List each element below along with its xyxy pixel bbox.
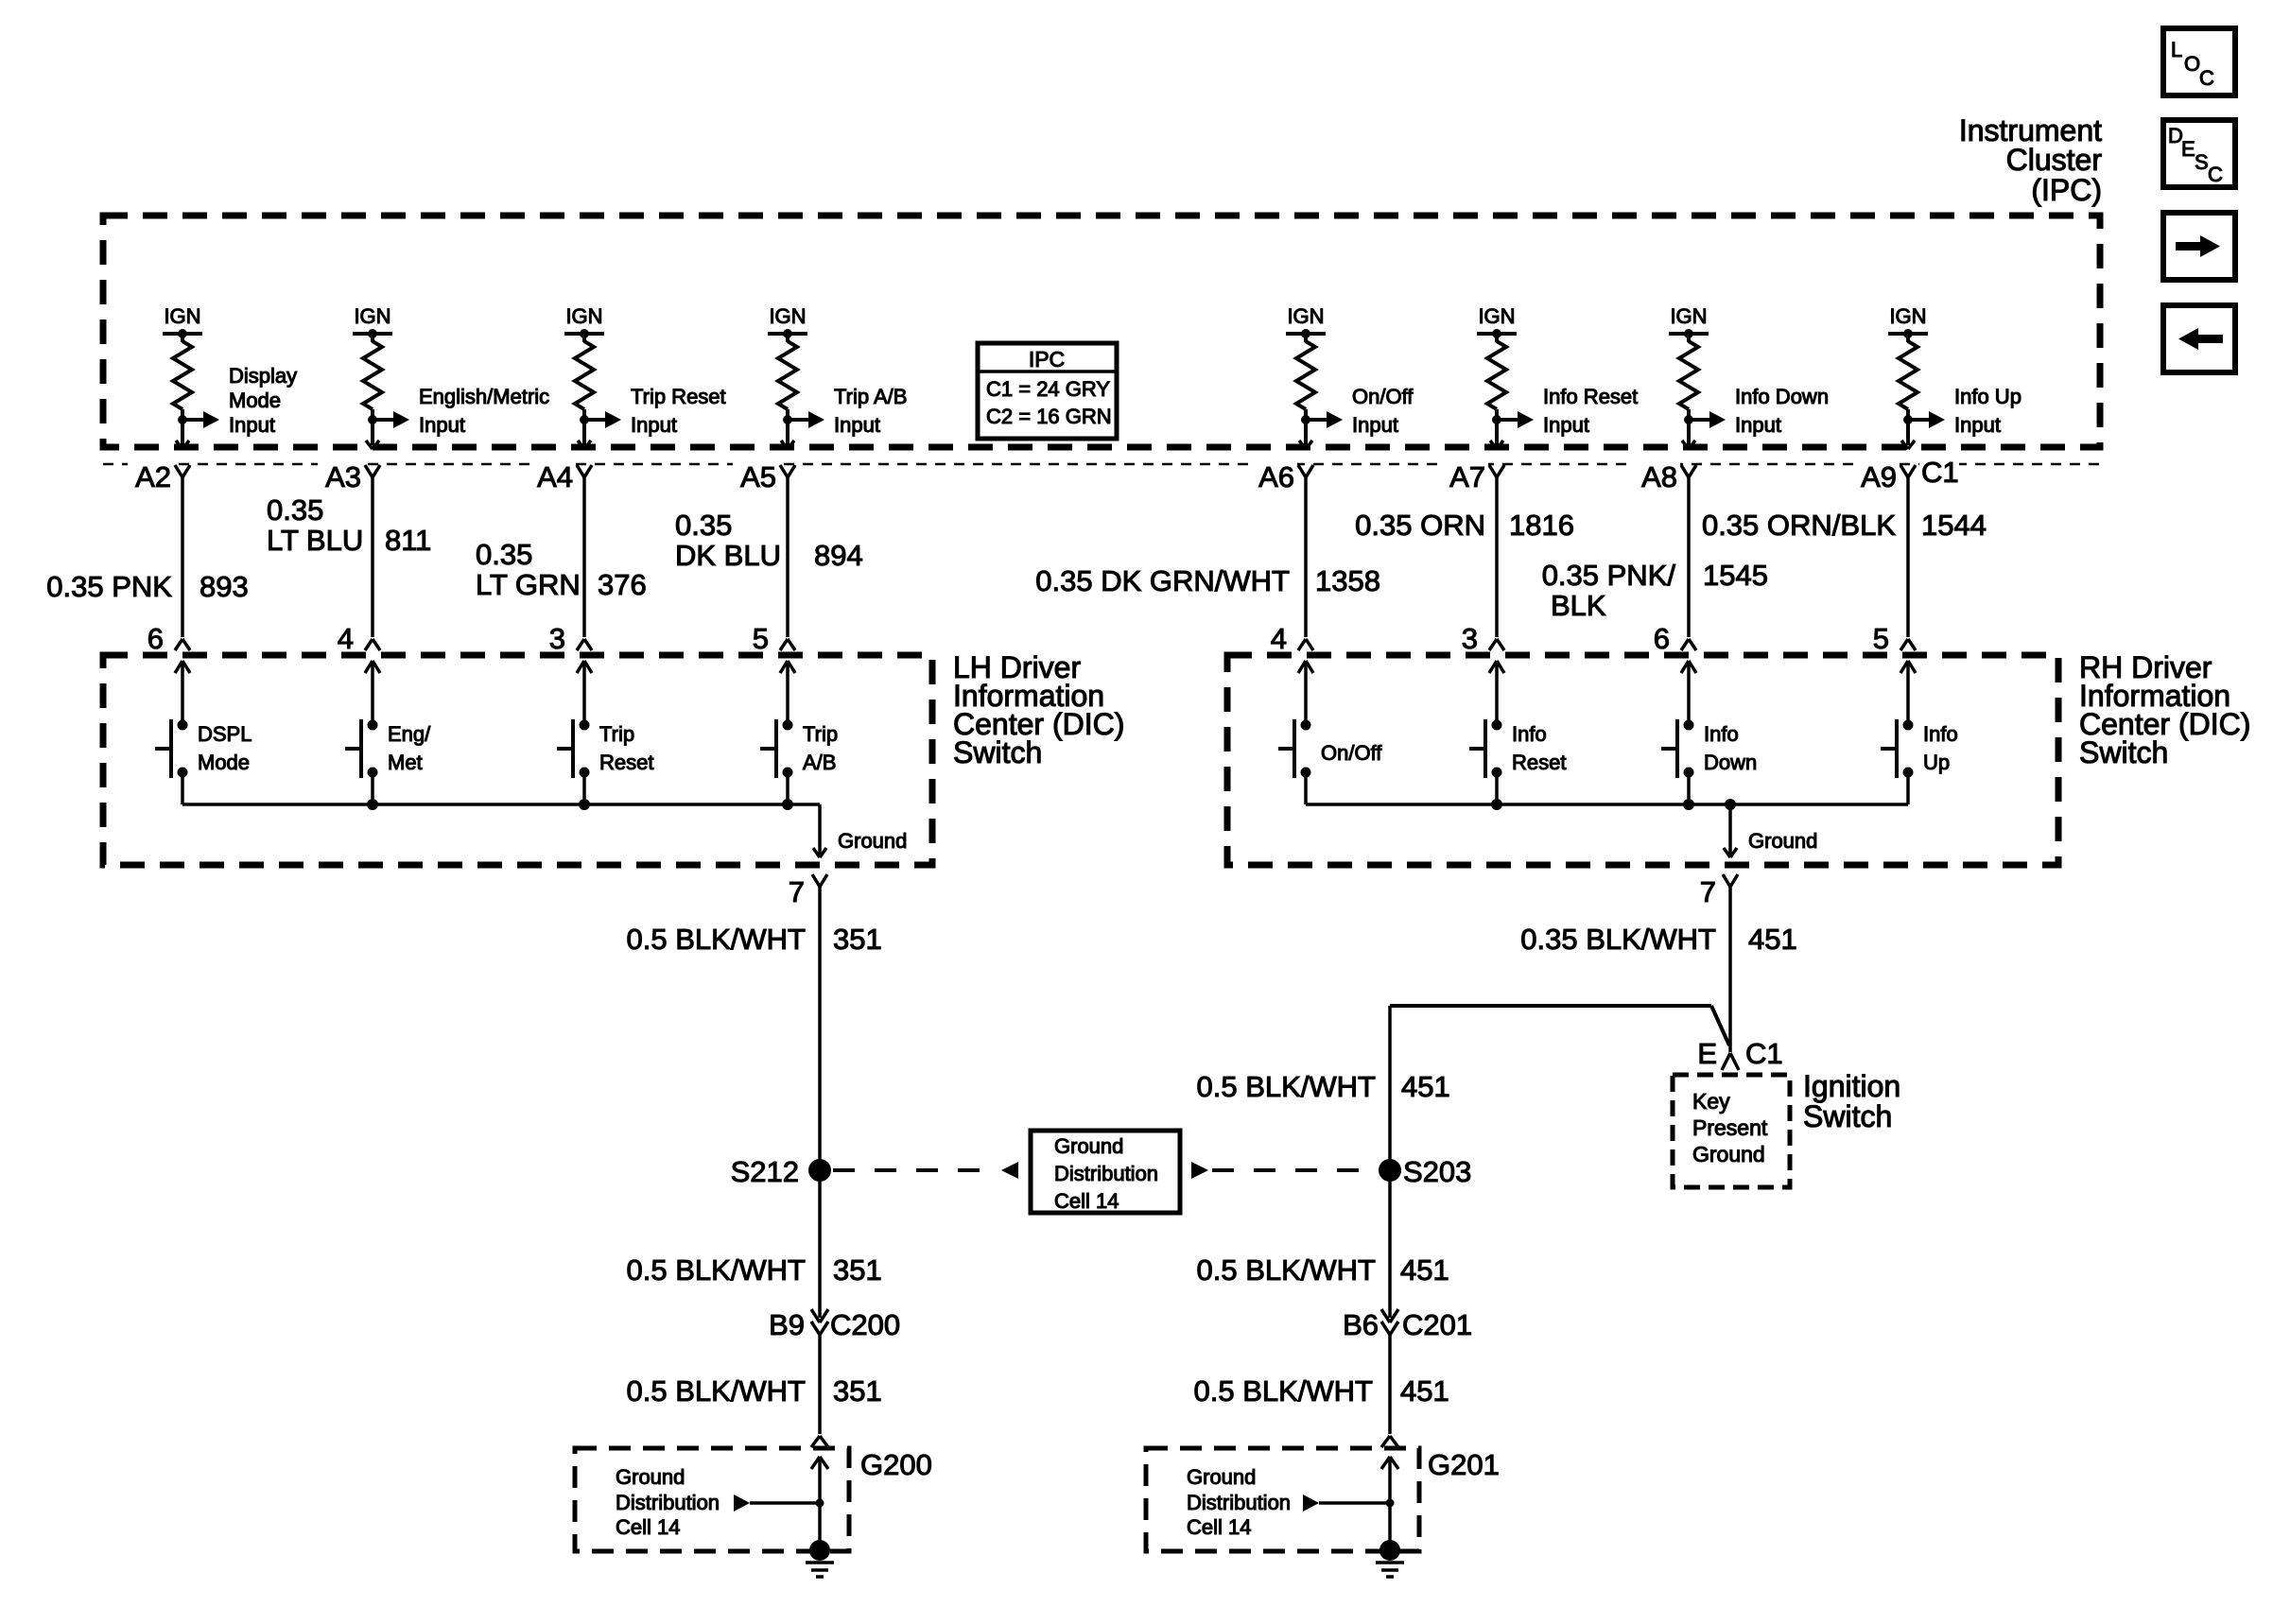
svg-text:451: 451	[1400, 1374, 1449, 1408]
wire 451 segment (S203 to C201)	[1388, 1170, 1392, 1318]
connector at DIC pin 3	[549, 622, 592, 655]
svg-text:6: 6	[147, 622, 164, 655]
svg-text:Info Down: Info Down	[1735, 385, 1829, 408]
arrowhead into IPC boundary	[1490, 441, 1503, 449]
svg-text:C201: C201	[1402, 1308, 1472, 1341]
svg-text:0.35 PNK: 0.35 PNK	[46, 570, 172, 603]
svg-text:0.35: 0.35	[476, 538, 532, 571]
svg-text:0.5 BLK/WHT: 0.5 BLK/WHT	[1194, 1374, 1374, 1408]
svg-text:On/Off: On/Off	[1352, 385, 1414, 408]
IGN supply node (column 6)	[1477, 304, 1517, 342]
wire label 0.5 BLK/WHT 451 (middle)	[1197, 1253, 1449, 1287]
svg-text:Present: Present	[1692, 1115, 1768, 1140]
svg-text:Info: Info	[1704, 722, 1739, 746]
arrow into DIC box at pin (column 3)	[577, 661, 592, 725]
label Info Down	[1704, 722, 1757, 774]
wire label 0.5 BLK/WHT 451 (lower)	[1194, 1374, 1449, 1408]
splice node S203	[1379, 1155, 1471, 1188]
signal tap arrow (Info Reset input)	[1497, 411, 1534, 428]
wire A2 to DIC switch	[181, 477, 184, 637]
svg-text:DK BLU: DK BLU	[675, 539, 781, 572]
IGN supply node (column 7)	[1669, 304, 1709, 342]
RH Driver Information Center (DIC) Switch dashed box	[1227, 655, 2058, 865]
connector at DIC pin 3	[1462, 622, 1504, 655]
svg-text:7: 7	[1700, 875, 1716, 908]
arrowhead into IPC boundary	[1299, 441, 1312, 449]
connector at DIC pin 5	[1873, 622, 1916, 655]
connector at ground G201	[1381, 1436, 1398, 1447]
wire resistor R7 to pin	[1684, 409, 1693, 445]
svg-text:Trip: Trip	[803, 722, 838, 746]
label Instrument Cluster (IPC)	[1959, 113, 2103, 207]
svg-text:3: 3	[549, 622, 565, 655]
svg-text:Reset: Reset	[599, 751, 653, 774]
pin A9 connector (IPC C1)	[1853, 456, 1916, 493]
svg-text:Cell 14: Cell 14	[1187, 1515, 1251, 1539]
wire label 0.5 BLK/WHT 351 (middle)	[627, 1253, 882, 1287]
svg-text:5: 5	[753, 622, 769, 655]
label On/Off	[1321, 741, 1382, 765]
forward arrow icon box	[2163, 213, 2235, 280]
wire switch SW6 to ground bus	[1495, 772, 1499, 804]
svg-text:4: 4	[338, 622, 354, 655]
earth ground symbol G200	[806, 1563, 834, 1577]
wire label 0.35 DK GRN/WHT 1358	[1035, 564, 1380, 597]
pushbutton switch SW3 (Trip Reset)	[557, 719, 590, 778]
LH ground branch arrow	[813, 804, 826, 857]
svg-text:Distribution: Distribution	[616, 1491, 720, 1514]
wire A9 to DIC switch	[1906, 477, 1910, 637]
reference arrow (G200 cell)	[734, 1494, 824, 1512]
connector at DIC pin 6	[1654, 622, 1696, 655]
svg-text:0.35 ORN/BLK: 0.35 ORN/BLK	[1702, 509, 1896, 542]
wire label 0.35 DK BLU 894	[675, 509, 863, 572]
label Ground Distribution Cell 14 (G201)	[1187, 1465, 1291, 1539]
LH DIC pin 7 connector	[789, 874, 827, 908]
svg-text:Mode: Mode	[229, 389, 281, 412]
IGN supply node (column 3)	[564, 304, 604, 342]
svg-text:S212: S212	[731, 1155, 799, 1188]
svg-text:BLK: BLK	[1551, 589, 1606, 622]
svg-text:Key: Key	[1692, 1089, 1730, 1114]
svg-text:L: L	[2171, 38, 2182, 61]
svg-text:4: 4	[1271, 622, 1287, 655]
label LH Driver Information Center (DIC) Switch	[953, 650, 1124, 769]
arrow into DIC box at pin (column 6)	[1489, 661, 1504, 725]
LOC icon box	[2163, 28, 2235, 95]
svg-text:Input: Input	[419, 413, 465, 437]
svg-text:Info: Info	[1923, 722, 1958, 746]
svg-text:0.35 BLK/WHT: 0.35 BLK/WHT	[1520, 923, 1716, 956]
svg-text:Ground: Ground	[1187, 1465, 1256, 1489]
svg-text:893: 893	[200, 570, 249, 603]
wire 451 segment (corner to S203)	[1388, 1006, 1392, 1170]
connector at DIC pin 4	[338, 622, 380, 655]
resistor R3 (pull-up to IGN)	[575, 341, 594, 409]
signal tap arrow (On/Off input)	[1306, 411, 1343, 428]
dashed reference link cell to S203	[1191, 1162, 1377, 1179]
svg-text:7: 7	[789, 875, 805, 908]
arrowhead into IPC boundary	[1682, 441, 1695, 449]
svg-text:Input: Input	[834, 413, 880, 437]
back arrow icon box	[2163, 305, 2235, 372]
svg-text:(IPC): (IPC)	[2031, 173, 2102, 207]
wire switch SW2 to ground bus	[371, 772, 374, 804]
wire 451 segment (C201 to G201)	[1388, 1335, 1392, 1434]
wire switch SW7 to ground bus	[1687, 772, 1691, 804]
svg-text:351: 351	[833, 1253, 882, 1287]
arrow into G200 stud	[811, 1457, 828, 1503]
arrowhead into IPC boundary	[781, 441, 794, 449]
wire resistor R5 to pin	[1301, 409, 1310, 445]
svg-text:Ground: Ground	[1054, 1134, 1123, 1158]
label C1 (IPC connector)	[1919, 456, 1959, 489]
wire A5 to DIC switch	[786, 477, 789, 637]
svg-text:Reset: Reset	[1512, 751, 1566, 774]
label Info Reset	[1512, 722, 1566, 774]
wire resistor R1 to pin	[178, 409, 187, 445]
wire resistor R3 to pin	[580, 409, 589, 445]
svg-text:Ground: Ground	[616, 1465, 685, 1489]
pushbutton switch SW2 (Eng/ Met)	[345, 719, 378, 778]
pin A8 connector (IPC C1)	[1634, 456, 1696, 493]
svg-text:A5: A5	[740, 460, 776, 493]
svg-text:0.35 PNK/: 0.35 PNK/	[1542, 559, 1676, 592]
signal tap arrow (Display input)	[182, 411, 219, 428]
svg-text:G200: G200	[860, 1448, 932, 1481]
label On/Off Input	[1352, 385, 1414, 437]
svg-text:IGN: IGN	[1889, 304, 1926, 328]
connector at DIC pin 5	[753, 622, 795, 655]
arrow into G201 stud	[1381, 1457, 1398, 1503]
resistor R2 (pull-up to IGN)	[363, 341, 382, 409]
IGN supply node (column 8)	[1888, 304, 1928, 342]
RH DIC pin 7 connector	[1700, 874, 1738, 908]
wire label 0.35 BLK/WHT 451	[1520, 923, 1796, 956]
svg-text:A4: A4	[537, 460, 573, 493]
svg-text:S203: S203	[1403, 1155, 1471, 1188]
svg-text:Input: Input	[1352, 413, 1398, 437]
IGN supply node (column 5)	[1286, 304, 1326, 342]
svg-text:Switch: Switch	[1803, 1099, 1892, 1133]
svg-text:Input: Input	[631, 413, 677, 437]
svg-text:E: E	[2181, 137, 2195, 161]
wire switch SW1 to ground bus	[181, 772, 184, 804]
svg-text:451: 451	[1400, 1253, 1449, 1287]
svg-text:O: O	[2184, 52, 2200, 76]
svg-text:C: C	[2199, 66, 2214, 90]
wire resistor R6 to pin	[1492, 409, 1501, 445]
svg-text:C2 = 16 GRN: C2 = 16 GRN	[986, 405, 1112, 428]
svg-text:Input: Input	[1735, 413, 1781, 437]
svg-text:A2: A2	[135, 460, 171, 493]
wire A4 to DIC switch	[582, 477, 586, 637]
svg-text:0.5 BLK/WHT: 0.5 BLK/WHT	[627, 923, 807, 956]
svg-text:A/B: A/B	[803, 751, 836, 774]
svg-text:IGN: IGN	[1478, 304, 1515, 328]
pin A3 connector (IPC C1)	[318, 456, 380, 493]
svg-text:1545: 1545	[1703, 559, 1768, 592]
arrowhead into IPC boundary	[366, 441, 379, 449]
resistor R1 (pull-up to IGN)	[173, 341, 192, 409]
arrowhead into IPC boundary	[1901, 441, 1915, 449]
svg-text:G201: G201	[1428, 1448, 1500, 1481]
signal tap arrow (Info Up input)	[1908, 411, 1945, 428]
arrowhead into IPC boundary	[578, 441, 591, 449]
svg-text:811: 811	[385, 524, 431, 557]
wire switch SW5 to ground bus	[1304, 772, 1308, 804]
svg-text:351: 351	[833, 1374, 882, 1408]
connector at ground G200	[811, 1436, 828, 1447]
svg-text:C200: C200	[830, 1308, 900, 1341]
svg-text:A3: A3	[325, 460, 361, 493]
svg-text:LT GRN: LT GRN	[476, 568, 581, 601]
label Ignition Switch	[1803, 1069, 1900, 1133]
wire label 0.35 PNK 893	[46, 570, 248, 603]
svg-text:A7: A7	[1449, 460, 1485, 493]
svg-text:Met: Met	[388, 751, 423, 774]
IGN supply node (column 2)	[353, 304, 392, 342]
wire 351 segment (C200 to G200)	[818, 1335, 822, 1434]
svg-text:0.35 ORN: 0.35 ORN	[1355, 509, 1485, 542]
svg-text:1816: 1816	[1509, 509, 1574, 542]
Key Present Ground dashed box (ignition switch)	[1673, 1075, 1790, 1187]
LH switch ground bus wire	[182, 799, 820, 810]
svg-text:C1: C1	[1921, 456, 1959, 489]
svg-text:1358: 1358	[1315, 564, 1380, 597]
arrow into DIC box at pin (column 2)	[365, 661, 380, 725]
svg-text:B6: B6	[1343, 1308, 1379, 1341]
wire label 0.35 ORN/BLK 1544	[1702, 509, 1987, 542]
pin A7 connector (IPC C1)	[1442, 456, 1504, 493]
label Ground Distribution Cell 14 (G200)	[616, 1465, 720, 1539]
svg-text:A9: A9	[1861, 460, 1897, 493]
connector C201 pin B6	[1343, 1308, 1472, 1341]
wire 451 segment (pin7 to C1)	[1728, 887, 1732, 1052]
wire label 0.5 BLK/WHT 451 (upper)	[1197, 1070, 1450, 1103]
svg-text:Cell 14: Cell 14	[1054, 1189, 1119, 1213]
label Ground (RH DIC)	[1748, 829, 1817, 853]
label Trip Reset Input	[631, 385, 726, 437]
splice node S212	[731, 1155, 831, 1188]
signal tap arrow (English/Metric input)	[373, 411, 409, 428]
svg-text:Input: Input	[229, 413, 275, 437]
resistor R8 (pull-up to IGN)	[1899, 341, 1917, 409]
wire label 0.5 BLK/WHT 351 (upper)	[627, 923, 882, 956]
dashed reference link S212 to cell	[833, 1162, 1018, 1179]
svg-text:5: 5	[1873, 622, 1889, 655]
svg-text:C1 = 24 GRY: C1 = 24 GRY	[986, 377, 1110, 401]
label Info Up Input	[1954, 385, 2021, 437]
resistor R5 (pull-up to IGN)	[1296, 341, 1315, 409]
svg-text:S: S	[2195, 150, 2209, 174]
label Display Input	[229, 364, 297, 437]
wire switch SW3 to ground bus	[582, 772, 586, 804]
IGN supply node (column 1)	[163, 304, 202, 342]
label English/Metric Input	[419, 385, 549, 437]
signal tap arrow (Info Down input)	[1689, 411, 1726, 428]
wire 351 segment (S212 to C200)	[818, 1170, 822, 1318]
svg-text:Distribution: Distribution	[1054, 1162, 1158, 1185]
wire resistor R8 to pin	[1903, 409, 1913, 445]
pushbutton switch SW6 (Info Reset)	[1469, 719, 1502, 778]
svg-text:DSPL: DSPL	[198, 722, 252, 746]
svg-text:Switch: Switch	[953, 735, 1042, 769]
label Info Down Input	[1735, 385, 1829, 437]
wire 351 segment (pin7 to S212)	[818, 887, 822, 1170]
svg-text:Info Up: Info Up	[1954, 385, 2021, 408]
svg-text:C1: C1	[1745, 1037, 1783, 1070]
svg-text:C: C	[2208, 163, 2223, 186]
resistor R4 (pull-up to IGN)	[778, 341, 797, 409]
label Ground (LH DIC)	[838, 829, 907, 853]
svg-text:Input: Input	[1954, 413, 2001, 437]
svg-text:0.5 BLK/WHT: 0.5 BLK/WHT	[1197, 1253, 1377, 1287]
svg-text:A6: A6	[1258, 460, 1294, 493]
wire label 0.35 ORN 1816	[1355, 509, 1574, 542]
label Info Reset Input	[1543, 385, 1638, 437]
wire label 0.35 LT GRN 376	[476, 538, 647, 601]
svg-text:IGN: IGN	[1287, 304, 1324, 328]
ground G200 terminal	[809, 1540, 830, 1561]
svg-text:0.5 BLK/WHT: 0.5 BLK/WHT	[627, 1374, 807, 1408]
svg-text:0.35 DK GRN/WHT: 0.35 DK GRN/WHT	[1035, 564, 1290, 597]
svg-text:Mode: Mode	[198, 751, 250, 774]
svg-text:IGN: IGN	[565, 304, 602, 328]
pushbutton switch SW8 (Info Up)	[1881, 719, 1914, 778]
svg-text:Info Reset: Info Reset	[1543, 385, 1638, 408]
RH switch ground bus wire	[1306, 799, 1908, 810]
svg-text:On/Off: On/Off	[1321, 741, 1382, 765]
resistor R6 (pull-up to IGN)	[1487, 341, 1506, 409]
svg-text:894: 894	[814, 539, 863, 572]
pin A6 connector (IPC C1)	[1251, 456, 1313, 493]
wire switch SW4 to ground bus	[786, 772, 789, 804]
svg-text:Up: Up	[1923, 751, 1950, 774]
svg-text:0.5 BLK/WHT: 0.5 BLK/WHT	[627, 1253, 807, 1287]
wire label 0.35 PNK/BLK 1545	[1542, 559, 1768, 622]
label G200	[860, 1448, 932, 1481]
svg-text:451: 451	[1748, 923, 1797, 956]
label Trip Reset	[599, 722, 653, 774]
wire to G201 ground stud	[1388, 1503, 1392, 1550]
svg-text:IGN: IGN	[354, 304, 390, 328]
G200 ground distribution dashed box	[575, 1448, 849, 1551]
resistor R7 (pull-up to IGN)	[1679, 341, 1698, 409]
connector C1 pin E (ignition switch)	[1697, 1037, 1782, 1070]
svg-text:0.5 BLK/WHT: 0.5 BLK/WHT	[1197, 1070, 1377, 1103]
label Info Up	[1923, 722, 1958, 774]
wire A7 to DIC switch	[1495, 477, 1499, 637]
svg-text:Info: Info	[1512, 722, 1547, 746]
svg-text:English/Metric: English/Metric	[419, 385, 549, 408]
svg-text:B9: B9	[769, 1308, 805, 1341]
signal tap arrow (Trip Reset input)	[584, 411, 621, 428]
svg-text:Switch: Switch	[2079, 735, 2168, 769]
wire A3 to DIC switch	[371, 477, 374, 637]
Ground Distribution Cell 14 reference box	[1031, 1131, 1180, 1213]
pin A4 connector (IPC C1)	[529, 456, 592, 493]
svg-text:IGN: IGN	[164, 304, 200, 328]
connector at DIC pin 6	[147, 622, 190, 655]
DESC icon box	[2163, 120, 2235, 187]
arrow into DIC box at pin (column 4)	[780, 661, 795, 725]
pushbutton switch SW4 (Trip A/B)	[760, 719, 793, 778]
label RH Driver Information Center (DIC) Switch	[2079, 650, 2250, 769]
earth ground symbol G201	[1376, 1563, 1404, 1577]
wire label 0.5 BLK/WHT 351 (lower)	[627, 1374, 882, 1408]
connector C200 pin B9	[769, 1308, 900, 1341]
svg-text:Down: Down	[1704, 751, 1757, 774]
svg-text:Trip Reset: Trip Reset	[631, 385, 726, 408]
svg-text:Ground: Ground	[1748, 829, 1817, 853]
wire resistor R2 to pin	[368, 409, 377, 445]
svg-text:Input: Input	[1543, 413, 1589, 437]
IPC connector face line (thin dashed)	[103, 463, 2100, 466]
svg-text:1544: 1544	[1921, 509, 1987, 542]
reference arrow (G201 cell)	[1303, 1494, 1395, 1512]
label G201	[1428, 1448, 1500, 1481]
pin A2 connector (IPC C1)	[128, 456, 190, 493]
svg-text:IGN: IGN	[769, 304, 806, 328]
label Trip A/B Input	[834, 385, 907, 437]
svg-text:6: 6	[1654, 622, 1670, 655]
wire to G200 ground stud	[818, 1503, 822, 1550]
svg-text:351: 351	[833, 923, 882, 956]
svg-text:IPC: IPC	[1029, 347, 1065, 371]
svg-text:0.35: 0.35	[675, 509, 732, 542]
RH ground branch arrow	[1724, 804, 1737, 857]
signal tap arrow (Trip A/B input)	[788, 411, 824, 428]
ground G201 terminal	[1379, 1540, 1400, 1561]
wire branch to S203 (horizontal)	[1390, 1006, 1729, 1045]
svg-text:Ground: Ground	[838, 829, 907, 853]
arrowhead into IPC boundary	[176, 441, 189, 449]
arrow into DIC box at pin (column 1)	[175, 661, 190, 725]
arrow into DIC box at pin (column 7)	[1681, 661, 1696, 725]
pushbutton switch SW5 (On/Off)	[1278, 719, 1311, 778]
svg-text:Ignition: Ignition	[1803, 1069, 1900, 1103]
svg-text:Ground: Ground	[1692, 1142, 1765, 1166]
svg-text:E: E	[1697, 1037, 1717, 1070]
IGN supply node (column 4)	[768, 304, 807, 342]
svg-text:Display: Display	[229, 364, 297, 388]
wire switch SW8 to ground bus	[1906, 772, 1910, 804]
wire resistor R4 to pin	[783, 409, 792, 445]
svg-text:A8: A8	[1641, 460, 1677, 493]
svg-text:376: 376	[598, 568, 647, 601]
instrument cluster (IPC) dashed box	[103, 216, 2100, 447]
svg-text:LT BLU: LT BLU	[267, 524, 363, 557]
svg-text:Trip A/B: Trip A/B	[834, 385, 907, 408]
pushbutton switch SW1 (DSPL Mode)	[155, 719, 188, 778]
label Eng/ Met	[388, 722, 431, 774]
arrow into DIC box at pin (column 8)	[1900, 661, 1916, 725]
svg-text:Eng/: Eng/	[388, 722, 431, 746]
wire label 0.35 LT BLU 811	[267, 493, 431, 557]
pin A5 connector (IPC C1)	[733, 456, 795, 493]
wire A8 to DIC switch	[1687, 477, 1691, 637]
svg-text:Distribution: Distribution	[1187, 1491, 1291, 1514]
svg-text:3: 3	[1462, 622, 1478, 655]
label Trip A/B	[803, 722, 838, 774]
svg-text:Cell 14: Cell 14	[616, 1515, 680, 1539]
G201 ground distribution dashed box	[1146, 1448, 1419, 1551]
LH Driver Information Center (DIC) Switch dashed box	[103, 655, 932, 865]
svg-text:IGN: IGN	[1670, 304, 1707, 328]
connector at DIC pin 4	[1271, 622, 1313, 655]
svg-text:451: 451	[1401, 1070, 1450, 1103]
